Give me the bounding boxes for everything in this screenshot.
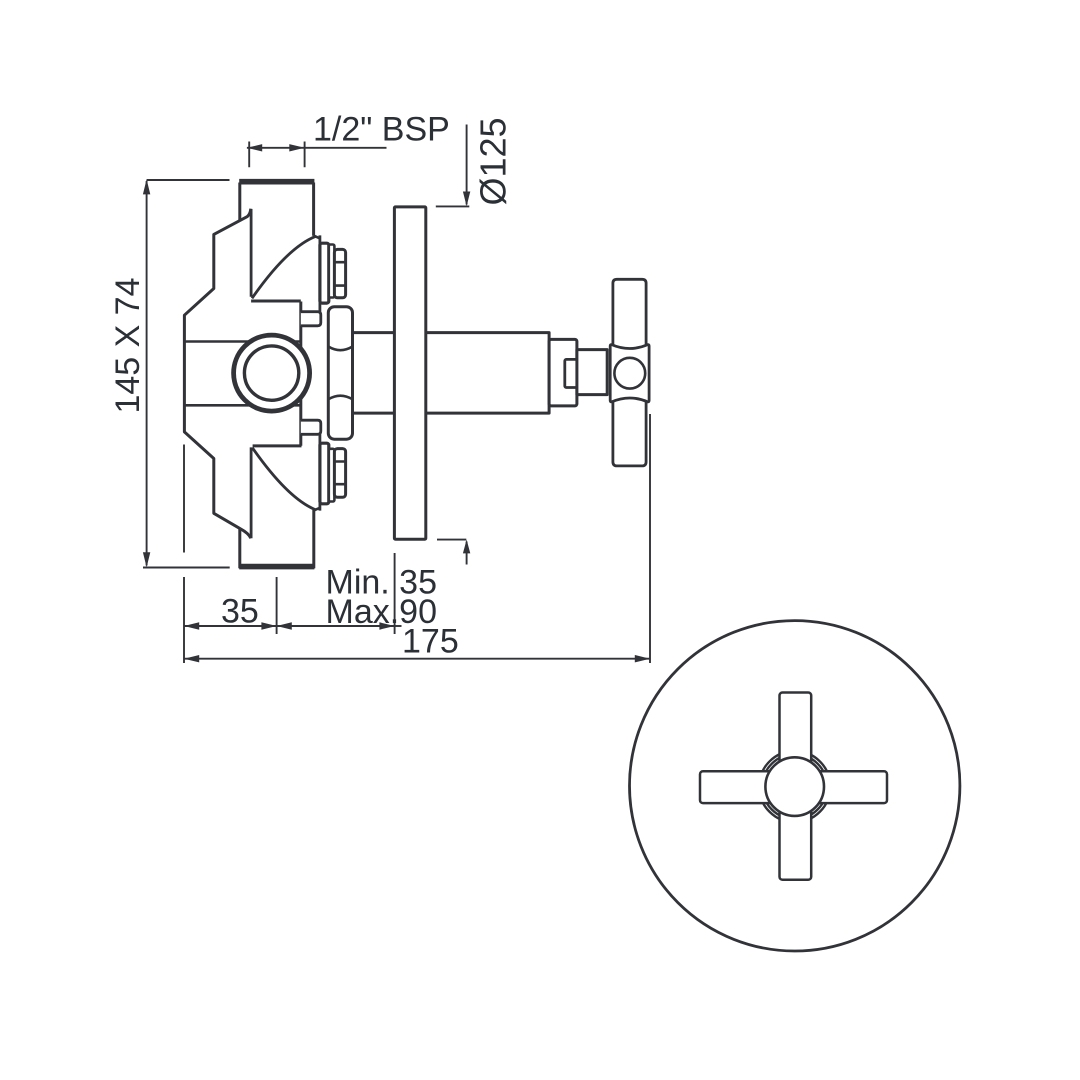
lower port step xyxy=(314,508,320,511)
dim 35/minmax line xyxy=(184,625,395,627)
handle lower arm xyxy=(613,396,646,466)
dim Ø125 lower line and arrow xyxy=(466,542,468,565)
dim 145x74 bottom reference xyxy=(143,567,230,569)
valve body bottom-left curl xyxy=(240,529,251,539)
upper tab xyxy=(301,312,321,326)
dim minmax right extension line xyxy=(394,553,396,634)
body bottom horizontal shoulder xyxy=(253,444,302,447)
dim 175 right extension line xyxy=(649,414,651,663)
upper port plate xyxy=(320,243,329,303)
wire: interior horizontal lower chamber line xyxy=(184,404,300,407)
upper port washer xyxy=(329,245,335,298)
svg-text:175: 175 xyxy=(402,623,459,661)
dim 175 line xyxy=(184,658,650,660)
top inlet pipe cap xyxy=(239,179,314,185)
wire: interior horizontal upper chamber line xyxy=(184,340,300,343)
dim 35 arrows xyxy=(184,622,277,629)
bottom outlet pipe left edge xyxy=(238,529,241,569)
dim 145x74 arrows xyxy=(143,179,150,567)
dim 35 left extension line xyxy=(183,445,185,664)
front view vertical cross bar xyxy=(780,693,812,880)
dim Ø125 lower reference xyxy=(437,539,466,541)
dim 145x74 top reference xyxy=(147,179,230,181)
dim 145x74 vertical line xyxy=(146,181,148,566)
lower port plate xyxy=(320,443,329,504)
dim 1/2 BSP arrows xyxy=(247,144,305,151)
upper nut facet lines xyxy=(334,262,345,285)
interior vertical seat line upper xyxy=(250,209,253,297)
bonnet ring outer circle xyxy=(234,335,310,411)
svg-text:35: 35 xyxy=(221,593,259,631)
dim Ø125 upper line and arrow xyxy=(466,125,468,205)
top inlet pipe right edge xyxy=(312,183,315,236)
cartridge upper waist arc xyxy=(328,347,352,351)
body top horizontal shoulder xyxy=(251,300,301,303)
bonnet cap xyxy=(549,339,577,406)
dim 35 right extension line xyxy=(276,577,278,634)
front view center knob circle xyxy=(765,757,824,816)
svg-text:1/2" BSP: 1/2" BSP xyxy=(313,111,450,149)
handle hub screw circle xyxy=(614,358,645,389)
upper port step xyxy=(314,236,320,239)
upper trumpet curve xyxy=(252,236,316,298)
front view big circle xyxy=(630,621,960,951)
top inlet pipe left edge xyxy=(238,183,241,222)
handle upper arm xyxy=(613,279,646,350)
dim 1/2 BSP line xyxy=(247,147,387,149)
front view hub inner ring xyxy=(762,754,827,819)
upper port nut xyxy=(334,249,345,297)
lower tab xyxy=(301,420,321,434)
cartridge lower waist arc xyxy=(328,396,352,400)
svg-text:145 X 74: 145 X 74 xyxy=(109,278,147,414)
bonnet notch xyxy=(565,359,577,387)
body right column edge xyxy=(299,302,302,446)
svg-text:Ø125: Ø125 xyxy=(473,117,514,205)
upper port tube edge xyxy=(318,235,321,311)
wall flange plate xyxy=(394,207,425,539)
front view hub outer ring xyxy=(759,751,830,822)
bonnet ring inner circle xyxy=(244,346,298,400)
dim minmax stub xyxy=(395,625,402,627)
front view horizontal cross bar xyxy=(700,771,887,803)
dim minmax arrows xyxy=(277,622,395,629)
bottom outlet pipe cap xyxy=(239,564,314,570)
sleeve through wall xyxy=(353,333,550,414)
bottom outlet pipe right edge xyxy=(312,510,315,568)
lower nut facet lines xyxy=(334,462,345,485)
lower port nut xyxy=(334,449,345,498)
dim 1/2 BSP extension lines xyxy=(249,142,304,168)
cartridge cylinder xyxy=(328,307,352,440)
handle hub xyxy=(610,345,649,402)
lower port tube edge xyxy=(318,434,321,510)
lower port washer xyxy=(329,449,335,502)
spindle shaft xyxy=(577,350,607,395)
dim 175 arrows xyxy=(184,655,650,662)
dim Ø125 upper reference xyxy=(436,205,470,207)
interior vertical seat line lower xyxy=(250,447,253,538)
valve body outline left profile xyxy=(184,209,250,529)
lower trumpet curve xyxy=(252,448,315,510)
